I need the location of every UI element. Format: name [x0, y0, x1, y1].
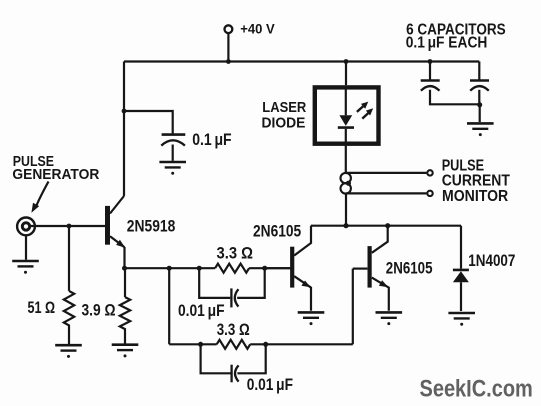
svg-text:DIODE: DIODE: [262, 115, 306, 132]
svg-text:0.1 μF EACH: 0.1 μF EACH: [406, 35, 488, 52]
svg-text:2N6105: 2N6105: [386, 259, 433, 277]
svg-text:+40 V: +40 V: [240, 20, 275, 36]
svg-text:2N5918: 2N5918: [127, 217, 176, 235]
svg-text:MONITOR: MONITOR: [442, 188, 508, 205]
svg-text:CURRENT: CURRENT: [442, 172, 511, 189]
svg-text:3.3 Ω: 3.3 Ω: [217, 321, 250, 339]
svg-text:1N4007: 1N4007: [468, 252, 515, 270]
svg-text:2N6105: 2N6105: [253, 222, 301, 240]
svg-text:0.01 μF: 0.01 μF: [178, 302, 225, 320]
svg-text:51 Ω: 51 Ω: [28, 299, 56, 317]
svg-text:0.01 μF: 0.01 μF: [247, 376, 293, 394]
svg-text:GENERATOR: GENERATOR: [12, 166, 99, 183]
svg-text:3.3 Ω: 3.3 Ω: [217, 244, 254, 262]
svg-text:0.1 μF: 0.1 μF: [192, 131, 231, 149]
svg-text:3.9 Ω: 3.9 Ω: [82, 302, 116, 320]
svg-text:SeekIC.com: SeekIC.com: [420, 376, 533, 403]
